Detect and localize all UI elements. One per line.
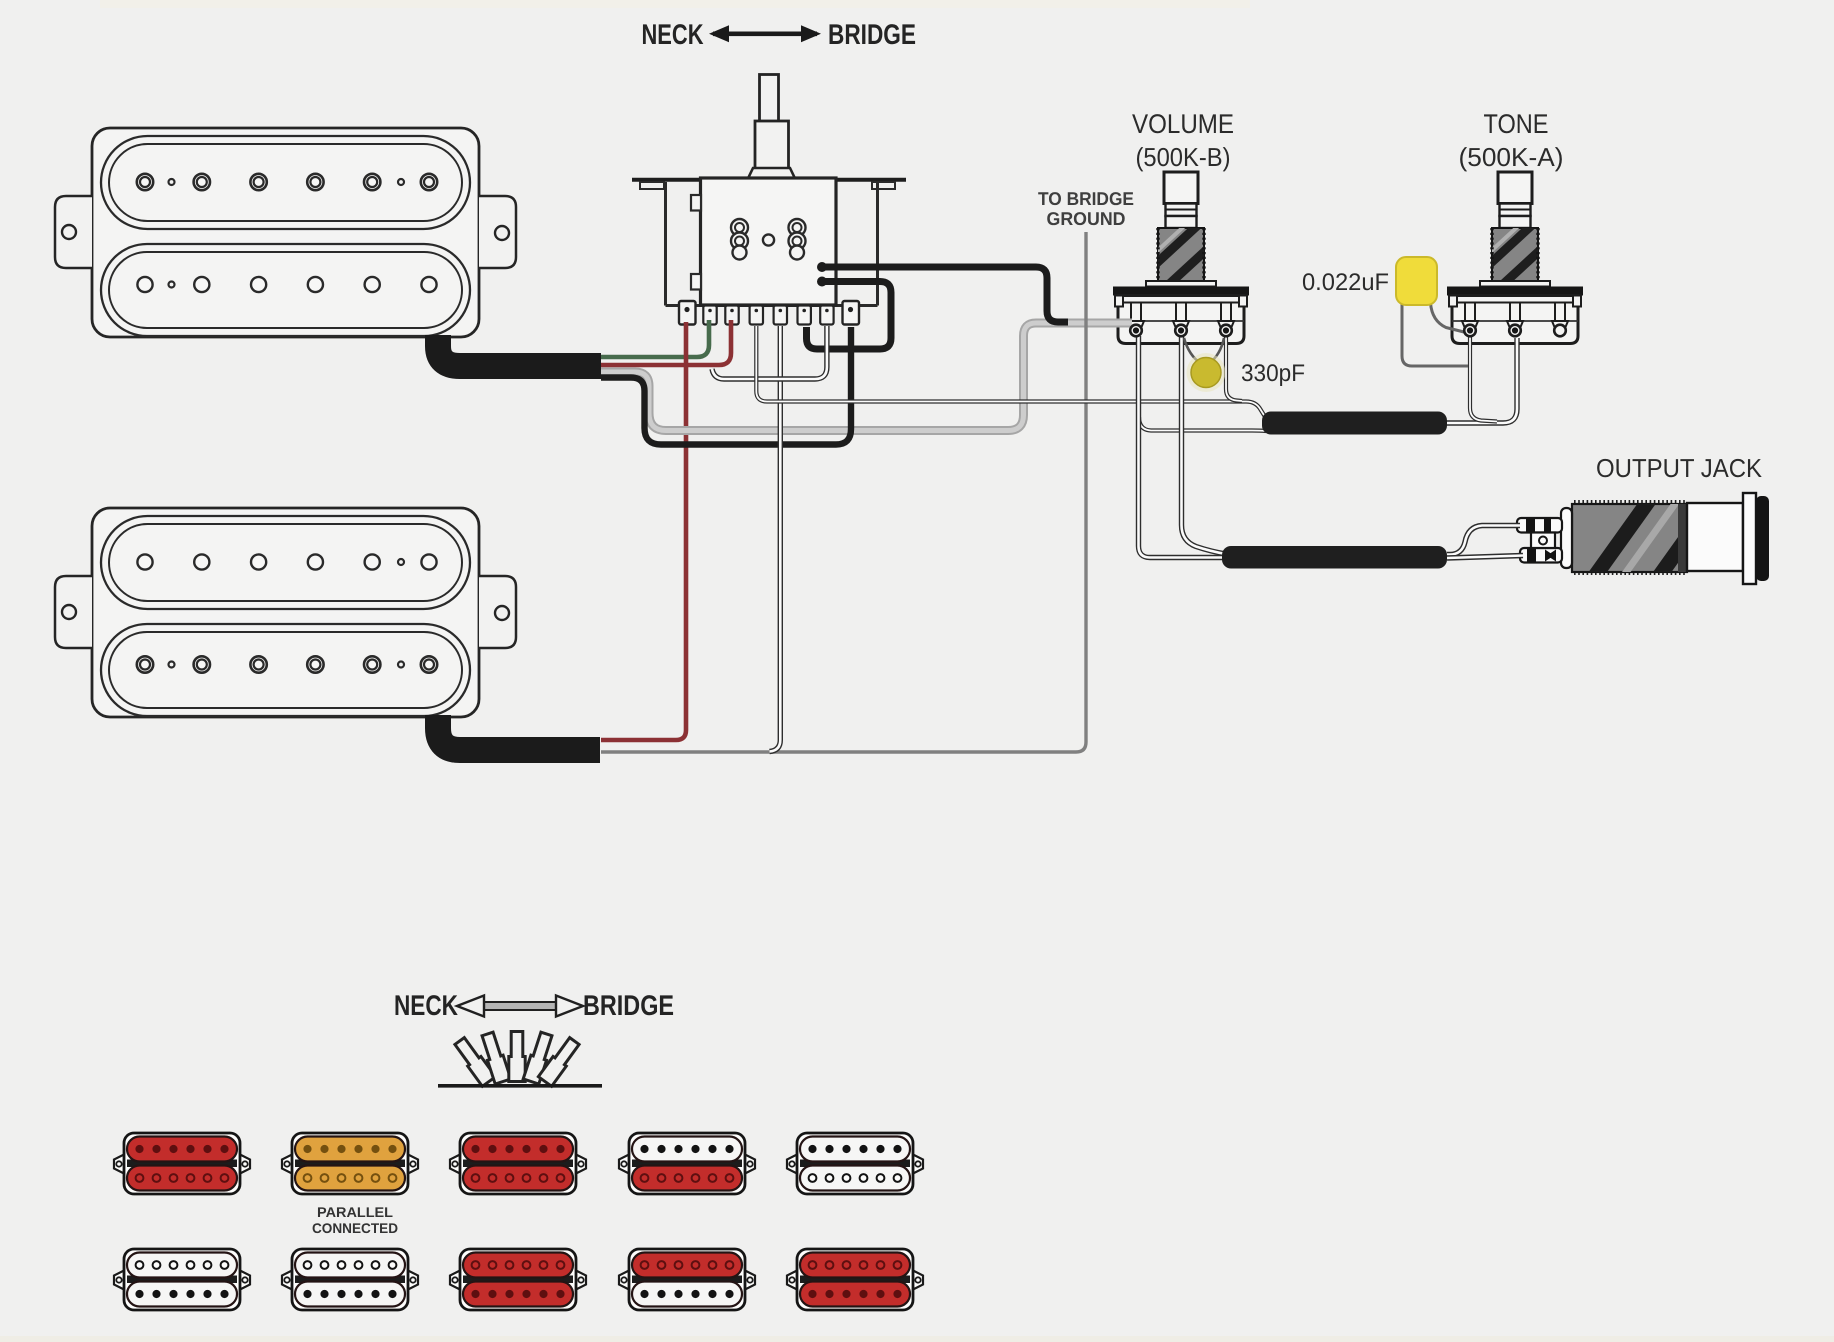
wire: volume lug1 to lower shielded cable <box>1139 336 1227 558</box>
wire: upper shielded cable to tone lug2 <box>1447 338 1517 423</box>
svg-text:VOLUME: VOLUME <box>1132 109 1234 139</box>
cable: bridge pickup 4-conductor cable <box>438 715 600 750</box>
legend pickup row1 position 3: red <box>450 1133 586 1194</box>
wire: lower shielded cable to jack tip <box>1447 526 1520 555</box>
legend pickup row1 position 2: parallel connected (orange) <box>282 1133 418 1194</box>
wire: switch lug4 to upper shielded cable <box>756 326 1266 418</box>
wire: neck red to switch lug3 <box>601 320 731 365</box>
svg-text:0.022uF: 0.022uF <box>1302 269 1389 296</box>
cable: neck pickup 4-conductor cable <box>438 335 601 366</box>
svg-text:BRIDGE: BRIDGE <box>828 19 916 51</box>
svg-text:GROUND: GROUND <box>1047 208 1126 229</box>
output jack label <box>1596 453 1763 483</box>
wire: neck green to switch lug2 <box>601 320 709 357</box>
switch terminal lugs (8) <box>679 301 859 325</box>
output jack <box>1517 485 1769 592</box>
legend pickup row2 position 4 <box>619 1249 755 1310</box>
capacitor 330pF leads <box>1184 338 1224 364</box>
legend pickup row1 position 5: white <box>787 1133 923 1194</box>
svg-text:TO BRIDGE: TO BRIDGE <box>1038 188 1134 209</box>
label: TO BRIDGE GROUND <box>1038 188 1134 229</box>
svg-text:330pF: 330pF <box>1241 360 1305 387</box>
label: NECK-BRIDGE legend (bottom) <box>394 990 674 1022</box>
wire: neck white/bare to volume lug1 (via lower run) <box>601 323 1132 431</box>
wire: volume lug1 branch to upper shielded cable <box>1139 417 1266 431</box>
tone pot lugs <box>1464 325 1566 337</box>
legend pickup row2 position 3 <box>450 1249 586 1310</box>
switch: 5-way lever switch <box>632 75 906 306</box>
legend pickup row2 position 5 <box>787 1249 923 1310</box>
switch position fan (5 lever positions) <box>438 1031 602 1086</box>
wire: bridge bare/ground to bridge-ground riser <box>601 232 1086 752</box>
svg-text:NECK: NECK <box>394 990 458 1022</box>
svg-text:(500K-A): (500K-A) <box>1459 142 1564 172</box>
svg-text:CONNECTED: CONNECTED <box>312 1220 398 1236</box>
wire: switch lug7 jumper to left <box>712 326 827 379</box>
pickup: bridge humbucker <box>55 508 516 717</box>
svg-text:OUTPUT JACK: OUTPUT JACK <box>1596 453 1763 483</box>
capacitor 0.022uF leads <box>1402 303 1468 366</box>
svg-text:NECK: NECK <box>642 19 704 51</box>
wire: volume lug3 tee into switch wire <box>1226 336 1242 401</box>
wire: volume lug2 to lower shielded cable <box>1182 336 1227 554</box>
svg-text:(500K-B): (500K-B) <box>1136 142 1231 172</box>
legend pickup row1 position 4: neck white / bridge red <box>619 1133 755 1194</box>
pickup: neck humbucker <box>55 128 516 337</box>
label: PARALLEL CONNECTED <box>312 1204 398 1236</box>
wire: bridge red to switch left outer lug <box>601 322 686 740</box>
legend pickup row2 position 2 <box>282 1249 418 1310</box>
shielded cable: volume to tone (upper) <box>1262 412 1447 435</box>
potentiometer: TONE 500K-A <box>1447 109 1583 344</box>
capacitor: 330pF (disc) <box>1187 353 1306 392</box>
label: NECK-BRIDGE selector direction (top) <box>642 19 917 51</box>
shielded cable: volume to output jack (lower) <box>1222 546 1447 569</box>
wire: switch lug5 to bridge cable junction <box>770 326 781 752</box>
svg-text:TONE: TONE <box>1484 109 1549 139</box>
wire: lower shielded cable to jack sleeve <box>1447 556 1523 559</box>
svg-text:BRIDGE: BRIDGE <box>583 990 674 1022</box>
legend pickup row1 position 1: both red <box>114 1133 250 1194</box>
legend pickup row2 position 1 <box>114 1249 250 1310</box>
wire: tone lug1 junction drop <box>1470 336 1497 422</box>
volume pot lugs <box>1130 325 1232 337</box>
wire: switch jumper A (internal joint to volume lug1) <box>817 262 1068 322</box>
svg-text:PARALLEL: PARALLEL <box>317 1204 393 1220</box>
wire: switch jumper B (internal joint to lug6) <box>807 277 892 350</box>
wire: neck black to switch right outer lug <box>601 327 851 445</box>
potentiometer: VOLUME 500K-B <box>1113 109 1249 344</box>
capacitor: 0.022uF (yellow film cap) <box>1302 257 1437 305</box>
